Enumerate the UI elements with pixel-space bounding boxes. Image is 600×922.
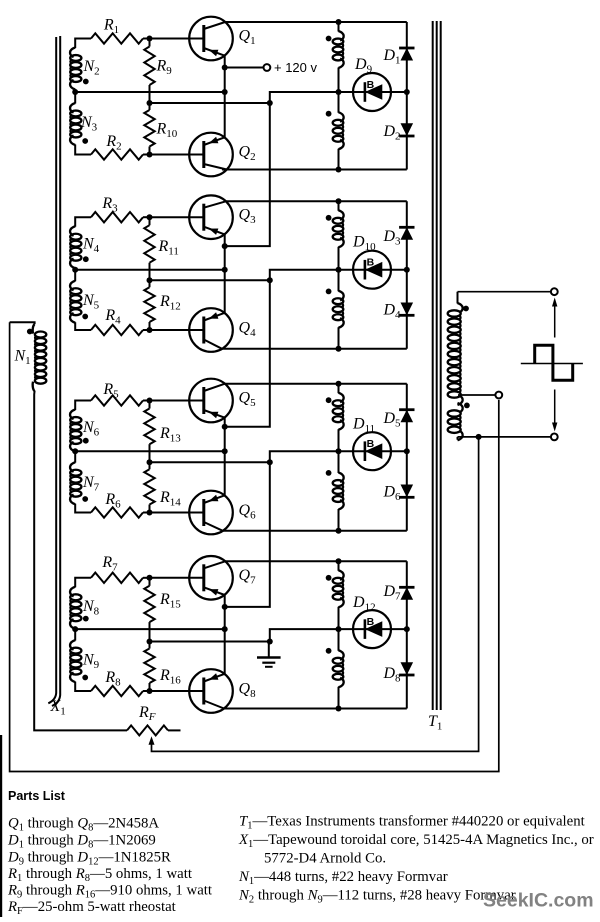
svg-text:N2 through N9—112 turns, #28 h: N2 through N9—112 turns, #28 heavy Formv… xyxy=(238,888,516,906)
wire: base lead of Q1 xyxy=(150,38,204,40)
resistor R2 xyxy=(91,133,143,160)
wire: collector rail bottom (stage 4) xyxy=(222,708,407,710)
node: bus junction (stage 1) xyxy=(267,100,273,106)
resistor R1 xyxy=(91,17,143,44)
winding T1 primary upper (stage 4) xyxy=(326,561,344,629)
ground xyxy=(257,658,281,667)
wire: N8 top lead / corner to R7 xyxy=(75,578,91,588)
wire: emitter column Q1-Q2 xyxy=(224,55,226,137)
svg-text:+ 120 v: + 120 v xyxy=(274,60,318,75)
wire: base lead of Q6 xyxy=(150,512,204,514)
wire: divider line to bus (stage 2) xyxy=(150,279,270,281)
wire: diode column top (stage 1) xyxy=(406,22,408,92)
winding N4 xyxy=(70,226,100,268)
winding T1 secondary xyxy=(448,292,470,441)
wire: lead between N8 and N9 xyxy=(74,628,76,640)
wire: collector rail bottom (stage 2) xyxy=(222,348,407,350)
diode D5 xyxy=(382,410,414,430)
wire: lead between N2 and N3 xyxy=(74,89,76,104)
winding N5 xyxy=(70,281,100,323)
wire: collector rail top (stage 2) xyxy=(225,200,407,202)
wire: diode column top (stage 3) xyxy=(406,384,408,452)
resistor R14 xyxy=(144,462,181,512)
winding N9 xyxy=(70,640,100,682)
winding N8 xyxy=(70,587,100,629)
node: primary center tap on rectifier rail xyxy=(336,267,342,273)
wire: R3 to base node xyxy=(143,216,150,218)
transformer core X1 xyxy=(48,36,65,718)
winding T1 primary lower (stage 3) xyxy=(326,451,344,531)
terminal: secondary tap output xyxy=(495,392,502,399)
node: R6/R14 base junction xyxy=(147,510,153,516)
svg-text:5772-D4 Arnold Co.: 5772-D4 Arnold Co. xyxy=(264,851,386,867)
resistor R8 xyxy=(91,669,143,696)
svg-text:B: B xyxy=(367,257,375,269)
output polarity arrow (top) xyxy=(552,298,557,338)
resistor R11 xyxy=(144,217,179,280)
wire: +120 V feed xyxy=(225,67,264,69)
wire: jog up to rectifier rail (stage 1) xyxy=(270,92,407,103)
node: emitter supply tap (stage 1) xyxy=(222,65,228,71)
wire: base lead of Q2 xyxy=(150,154,204,156)
wire: R1 to base node xyxy=(143,38,150,40)
wire: R7 to base node xyxy=(143,577,150,579)
rheostat RF xyxy=(127,704,181,735)
wire: diode column top (stage 4) xyxy=(406,561,408,629)
node: bus junction (stage 4) xyxy=(267,639,273,645)
node: primary winding on bottom rail xyxy=(336,346,342,352)
diode D3 xyxy=(382,227,414,247)
wire: N7 bottom lead / corner to R6 xyxy=(75,504,91,513)
wire: RF wiper to T1 secondary lower lead xyxy=(152,437,479,752)
node: R9/R10 junction xyxy=(147,100,153,106)
wire: collector rail top (stage 3) xyxy=(225,383,407,385)
rectifier D11 xyxy=(352,416,391,471)
transistor Q7 xyxy=(189,556,233,600)
winding T1 primary lower (stage 2) xyxy=(326,270,344,349)
wire: emitter column Q3-Q4 xyxy=(224,234,226,313)
wire: secondary bottom lead to output terminal xyxy=(458,436,552,438)
winding T1 primary upper (stage 1) xyxy=(326,22,344,92)
wire: diode column bottom (stage 4) xyxy=(406,629,408,708)
wire: lead between N6 and N7 xyxy=(74,451,76,463)
node: R2/R10 base junction xyxy=(147,152,153,158)
resistor R16 xyxy=(144,642,181,692)
resistor R10 xyxy=(144,103,177,155)
transistor Q4 xyxy=(189,308,233,352)
wire: base lead of Q7 xyxy=(150,577,204,579)
wire: winding center-tap line (stage 1) xyxy=(75,91,225,93)
winding N6 xyxy=(70,410,100,452)
wire: divider line to bus (stage 3) xyxy=(150,461,270,463)
wire: N2 top lead / corner to R1 xyxy=(75,39,91,49)
node: emitter supply tap (stage 2) xyxy=(222,243,228,249)
wire: supply cascade from stage 3 bus xyxy=(225,462,270,607)
resistor R15 xyxy=(144,578,181,642)
node: emitter column on center-tap line xyxy=(222,267,228,273)
wire: secondary top lead to output terminal xyxy=(458,291,552,293)
node: emitter column on center-tap line xyxy=(222,448,228,454)
wire: N4 top lead / corner to R3 xyxy=(75,217,91,227)
svg-text:D1 through D8—1N2069: D1 through D8—1N2069 xyxy=(7,833,156,851)
node: bus junction (stage 2) xyxy=(267,277,273,283)
wire: divider line to bus (stage 1) xyxy=(150,102,270,104)
wire: N3 bottom lead / corner to R2 xyxy=(75,145,91,155)
diode D4 xyxy=(382,302,414,322)
winding N2 xyxy=(70,48,100,90)
wire: collector rail bottom (stage 3) xyxy=(222,530,407,532)
svg-text:Parts List: Parts List xyxy=(8,789,66,803)
node: emitter supply tap (stage 3) xyxy=(222,424,228,430)
rectifier D9 xyxy=(353,56,391,111)
diode D6 xyxy=(382,484,414,504)
wire: base lead of Q4 xyxy=(150,329,204,331)
node: R11/R12 junction xyxy=(147,277,153,283)
rectifier D12 xyxy=(352,594,391,648)
node: rectifier rail / diode column junction xyxy=(404,89,410,95)
wiper arrow of RF xyxy=(149,736,155,745)
transformer core T1 xyxy=(428,21,442,733)
transistor Q3 xyxy=(189,195,233,239)
node: primary winding on top rail xyxy=(336,19,342,25)
node: emitter column on center-tap line xyxy=(222,626,228,632)
node: R1/R9 base junction xyxy=(147,36,153,42)
resistor R12 xyxy=(144,280,180,330)
wire: jog up to rectifier rail (stage 4) xyxy=(270,629,407,641)
wire: N1 bottom lead down to rheostat RF xyxy=(34,391,127,731)
node: R8/R16 base junction xyxy=(147,688,153,694)
node: R13/R14 junction xyxy=(147,459,153,465)
wire: base lead of Q8 xyxy=(150,690,204,692)
svg-text:R9 through R16—910 ohms, 1 wat: R9 through R16—910 ohms, 1 watt xyxy=(7,883,213,901)
winding T1 primary lower (stage 1) xyxy=(326,92,344,170)
wire: R6 to base node xyxy=(143,512,150,514)
transistor Q8 xyxy=(189,669,233,713)
wire: secondary tap lead xyxy=(458,394,496,396)
wire: jog up to rectifier rail (stage 2) xyxy=(270,270,407,281)
node: primary winding on bottom rail xyxy=(336,528,342,534)
resistor R4 xyxy=(91,307,143,335)
wire: outer loop (N1 top to secondary tap terminal) xyxy=(10,322,499,771)
node: emitter supply tap (stage 4) xyxy=(222,604,228,610)
winding N1 xyxy=(14,324,47,391)
wire: collector rail bottom (stage 1) xyxy=(222,169,407,171)
diode D2 xyxy=(382,123,414,143)
winding T1 primary upper (stage 3) xyxy=(326,384,344,452)
wire: winding center-tap line (stage 4) xyxy=(75,628,225,630)
transistor Q2 xyxy=(189,133,233,177)
wire: lead between N4 and N5 xyxy=(74,268,76,282)
node: junction N6/N7 xyxy=(72,448,78,454)
node: R7/R15 base junction xyxy=(147,575,153,581)
svg-text:Q1 through Q8—2N458A: Q1 through Q8—2N458A xyxy=(8,816,159,834)
node: rectifier rail / diode column junction xyxy=(404,267,410,273)
wire: jog up to rectifier rail (stage 3) xyxy=(270,451,407,462)
wire: N9 bottom lead / corner to R8 xyxy=(75,682,91,691)
wire: supply cascade from stage 1 bus xyxy=(225,103,270,246)
resistor R9 xyxy=(144,39,172,104)
wire: winding center-tap line (stage 3) xyxy=(75,450,225,452)
square-wave output symbol xyxy=(521,345,583,380)
wire: supply cascade from stage 2 bus xyxy=(225,280,270,426)
svg-text:R1 through R8—5 ohms, 1 watt: R1 through R8—5 ohms, 1 watt xyxy=(7,866,193,884)
node: R4/R12 base junction xyxy=(147,327,153,333)
node: primary center tap on rectifier rail xyxy=(336,89,342,95)
svg-text:T1—Texas Instruments transform: T1—Texas Instruments transformer #440220… xyxy=(239,814,586,832)
svg-text:B: B xyxy=(367,79,375,91)
node: primary winding on top rail xyxy=(336,198,342,204)
winding T1 primary upper (stage 2) xyxy=(326,201,344,269)
diode D8 xyxy=(382,662,414,684)
resistor R3 xyxy=(91,195,143,222)
node: primary center tap on rectifier rail xyxy=(336,626,342,632)
svg-text:B: B xyxy=(367,438,375,450)
winding T1 primary lower (stage 4) xyxy=(326,629,344,708)
node: rectifier rail / diode column junction xyxy=(404,626,410,632)
resistor R5 xyxy=(91,381,143,406)
node: RF wiper return on secondary bottom lead xyxy=(476,434,482,440)
node: primary winding on bottom rail xyxy=(336,706,342,712)
transistor Q1 xyxy=(189,17,233,61)
svg-text:X1—Tapewound toroidal core, 51: X1—Tapewound toroidal core, 51425-4A Mag… xyxy=(238,832,594,850)
wire: base lead of Q5 xyxy=(150,400,204,402)
wire: R4 to base node xyxy=(143,329,150,331)
rectifier D10 xyxy=(352,234,391,289)
resistor R7 xyxy=(91,554,143,583)
terminal: output bottom xyxy=(551,434,558,441)
wire: emitter column Q7-Q8 xyxy=(224,595,226,674)
transistor Q5 xyxy=(189,379,233,423)
diode D1 xyxy=(382,47,414,67)
resistor R6 xyxy=(91,491,143,518)
winding N7 xyxy=(70,462,100,504)
wire: diode column top (stage 2) xyxy=(406,201,408,269)
svg-text:RF—25-ohm 5-watt rheostat: RF—25-ohm 5-watt rheostat xyxy=(7,899,177,917)
node: primary center tap on rectifier rail xyxy=(336,448,342,454)
node: junction N8/N9 xyxy=(72,626,78,632)
wire: R5 to base node xyxy=(143,400,150,402)
svg-text:SeekIC.com: SeekIC.com xyxy=(483,890,594,912)
wire: diode column bottom (stage 2) xyxy=(406,270,408,349)
resistor R13 xyxy=(144,401,181,463)
wire: diode column bottom (stage 1) xyxy=(406,92,408,170)
node: primary winding on top rail xyxy=(336,558,342,564)
node: R15/R16 junction xyxy=(147,639,153,645)
wire: base lead of Q3 xyxy=(150,216,204,218)
wire: R2 to base node xyxy=(143,154,150,156)
wire: bus to ground (stage 4) xyxy=(268,642,270,658)
wire: divider line to bus (stage 4) xyxy=(150,641,270,643)
wire: R8 to base node xyxy=(143,690,150,692)
wire: emitter column Q5-Q6 xyxy=(224,417,226,495)
node: R3/R11 base junction xyxy=(147,214,153,220)
wire: N5 bottom lead / corner to R4 xyxy=(75,322,91,330)
winding N3 xyxy=(70,103,98,145)
node: rectifier rail / diode column junction xyxy=(404,448,410,454)
node: junction N4/N5 xyxy=(72,267,78,273)
wire: diode column bottom (stage 3) xyxy=(406,451,408,531)
svg-text:N1—448 turns, #22 heavy Formva: N1—448 turns, #22 heavy Formvar xyxy=(238,869,448,887)
wire: collector rail top (stage 4) xyxy=(225,560,407,562)
svg-text:B: B xyxy=(367,616,375,628)
node: R5/R13 base junction xyxy=(147,398,153,404)
node: primary winding on bottom rail xyxy=(336,167,342,173)
terminal +120 V xyxy=(264,64,271,71)
wire: N6 top lead / corner to R5 xyxy=(75,401,91,411)
node: junction N2/N3 xyxy=(72,89,78,95)
node: emitter column on center-tap line xyxy=(222,89,228,95)
node: primary winding on top rail xyxy=(336,381,342,387)
wire: winding center-tap line (stage 2) xyxy=(75,269,225,271)
output polarity arrow (bottom) xyxy=(552,390,557,432)
wire: collector rail top (stage 1) xyxy=(225,21,407,23)
wire: N1 top lead from outer loop xyxy=(10,322,35,324)
scan border mark (left edge) xyxy=(0,735,2,917)
transistor Q6 xyxy=(189,491,233,535)
node: bus junction (stage 3) xyxy=(267,459,273,465)
diode D7 xyxy=(382,583,414,603)
terminal: output top xyxy=(551,288,558,295)
